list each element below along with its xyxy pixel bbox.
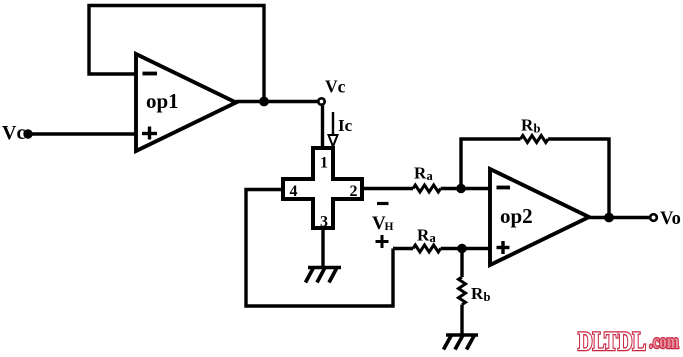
Hall element (4-terminal cross) <box>283 148 362 228</box>
svg-text:DLTDL: DLTDL <box>578 327 646 356</box>
wire op1 output <box>236 100 318 103</box>
wire junction down to Rb <box>460 249 463 278</box>
svg-text:b: b <box>534 122 541 136</box>
svg-text:R: R <box>414 164 427 183</box>
resistor Rb (lower, to ground) <box>459 277 491 305</box>
node Vc open terminal <box>318 98 324 104</box>
svg-text:R: R <box>417 226 430 245</box>
wire Hall pin 2 to Ra <box>362 187 413 190</box>
resistor Ra (upper) <box>413 164 441 193</box>
wire to lower Ra <box>393 247 413 250</box>
label VH plus <box>376 235 389 248</box>
label VH <box>372 213 394 234</box>
current arrow Ic <box>329 112 353 147</box>
node junction inverting input <box>456 184 466 194</box>
resistor Ra (lower) <box>413 226 441 253</box>
node junction op2 output <box>604 213 614 223</box>
svg-text:3: 3 <box>320 214 328 231</box>
svg-text:Ic: Ic <box>338 116 353 135</box>
wire Rb to ground <box>460 305 463 335</box>
wire lower Ra to op2 non-inverting input <box>441 247 490 250</box>
svg-text:Vc: Vc <box>325 77 346 97</box>
ground under Rb <box>444 335 479 350</box>
svg-text:R: R <box>471 284 484 303</box>
svg-text:2: 2 <box>350 183 358 200</box>
node junction non-inverting input <box>457 244 467 254</box>
label VH minus <box>377 202 389 205</box>
svg-text:a: a <box>427 169 434 183</box>
wire op2 output <box>589 216 650 219</box>
wire Hall pin 4 loop to lower Ra <box>246 190 393 307</box>
wire Ra to op2 inverting input <box>441 187 490 190</box>
svg-text:H: H <box>385 221 394 233</box>
svg-text:R: R <box>521 116 534 135</box>
wire Rb to op2 output node <box>548 139 609 218</box>
wire Hall pin 3 to ground <box>321 228 324 267</box>
op-amp U1 (op1) triangle <box>136 54 236 151</box>
svg-text:op2: op2 <box>500 204 533 228</box>
node Vc input dot <box>23 129 32 138</box>
svg-text:Vo: Vo <box>660 209 681 229</box>
ground under Hall pin 3 <box>306 268 342 283</box>
svg-text:op1: op1 <box>146 89 179 113</box>
resistor Rb (feedback) <box>521 116 549 143</box>
wire Vc input to op1 + <box>28 132 136 135</box>
svg-text:Vc: Vc <box>2 122 25 144</box>
node junction op1 output <box>259 97 269 107</box>
wire op1 feedback loop <box>89 6 264 102</box>
svg-text:1: 1 <box>320 155 328 172</box>
node Vo open terminal <box>650 214 657 221</box>
svg-text:a: a <box>430 231 437 245</box>
wire feedback to Rb (upper) <box>461 139 521 189</box>
watermark DLTDL.com logo <box>578 327 679 356</box>
wire Vc node down to Hall pin 1 <box>321 106 324 151</box>
svg-text:4: 4 <box>290 183 298 200</box>
svg-text:b: b <box>484 290 491 304</box>
svg-text:.com: .com <box>649 329 679 353</box>
op-amp U2 (op2) triangle <box>490 169 589 265</box>
